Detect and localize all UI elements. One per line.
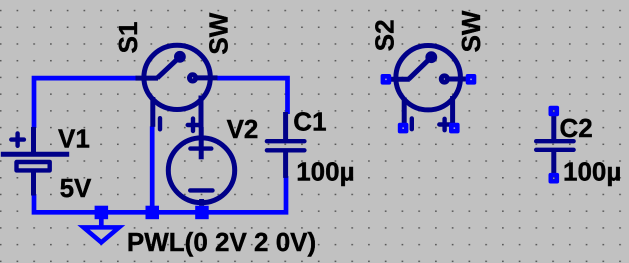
svg-text:PWL(0 2V 2 0V): PWL(0 2V 2 0V) — [127, 227, 316, 257]
svg-text:SW: SW — [456, 10, 486, 52]
wire from S1 control minus pin to ground rail — [150, 126, 155, 212]
S2 unconnected pin right — [466, 74, 477, 85]
svg-text:S2: S2 — [370, 19, 400, 51]
wire from V1 bottom along ground rail to C1 bottom — [34, 176, 286, 212]
switch S1 — [136, 45, 218, 131]
capacitor C2 — [536, 111, 573, 178]
C2 unconnected pin bottom — [549, 173, 560, 184]
junction at V2 minus / rail — [195, 206, 209, 220]
S2 unconnected pin left — [381, 74, 392, 85]
junction at ground tap — [95, 206, 109, 220]
svg-text:C2: C2 — [560, 113, 593, 143]
switch S2 — [387, 45, 470, 130]
ground symbol — [84, 212, 120, 242]
capacitor C1 — [267, 112, 305, 178]
svg-text:100µ: 100µ — [563, 157, 621, 187]
svg-text:V2: V2 — [227, 114, 259, 144]
S2 unconnected control pin plus — [449, 123, 460, 134]
wire from switch S1 right pin to C1 top — [217, 78, 288, 114]
S2 unconnected control pin minus — [398, 123, 409, 134]
svg-text:V1: V1 — [58, 123, 90, 153]
svg-text:100µ: 100µ — [296, 157, 354, 187]
svg-text:SW: SW — [203, 12, 233, 54]
voltage source V2 — [168, 127, 234, 206]
wire from V1 top to switch S1 left pin — [34, 78, 137, 128]
svg-text:5V: 5V — [60, 173, 92, 203]
svg-text:S1: S1 — [113, 22, 143, 54]
junction at S1 control wire / rail — [146, 206, 160, 220]
svg-text:C1: C1 — [293, 106, 326, 136]
C2 unconnected pin top — [549, 106, 560, 117]
voltage source V1 (battery) — [1, 127, 69, 196]
